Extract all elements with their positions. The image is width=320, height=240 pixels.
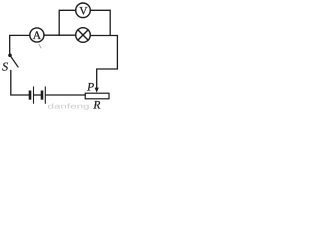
- svg-text:V: V: [79, 5, 88, 17]
- svg-text:A: A: [33, 30, 42, 42]
- svg-text:danfeng: danfeng: [48, 103, 90, 111]
- svg-text:S: S: [2, 60, 8, 74]
- svg-text:R: R: [92, 99, 100, 111]
- svg-text:P: P: [86, 82, 94, 94]
